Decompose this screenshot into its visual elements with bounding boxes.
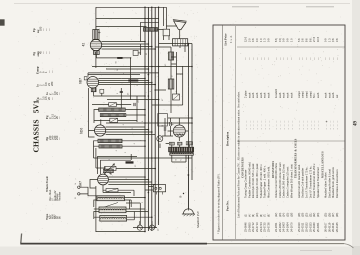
svg-text:compl.: compl. [302, 90, 305, 98]
svg-text:—: — [336, 57, 339, 61]
svg-text:—: — [279, 57, 282, 61]
parts column rule desc [237, 140, 345, 142]
svg-text:B: B [180, 196, 183, 198]
svg-text:25-0311: 25-0311 [301, 222, 305, 232]
svg-text:12 6: 12 6 [244, 36, 248, 42]
svg-text:set: set [336, 94, 339, 98]
svg-text:42: 42 [81, 43, 85, 47]
svg-text:(21): (21) [309, 212, 312, 217]
svg-text:each: each [260, 92, 263, 98]
svg-text:—: — [309, 57, 312, 61]
wire cathode 6B7 [94, 92, 116, 96]
svg-text:23-0655: 23-0655 [247, 222, 251, 232]
svg-text:4 6: 4 6 [251, 38, 255, 42]
svg-text:—: — [290, 57, 293, 61]
svg-text:... ... ...: ... ... ... [332, 120, 335, 130]
svg-text:... ... ...: ... ... ... [256, 120, 259, 130]
transformer secondary loops [170, 153, 194, 156]
earth terminal E [78, 193, 80, 195]
svg-text:Volume Control 500,000 ohms: Volume Control 500,000 ohms [274, 162, 278, 198]
resistor R HT3 [173, 94, 180, 100]
IF transformer T2 [99, 108, 126, 111]
svg-text:27 6: 27 6 [312, 36, 316, 42]
wires transformer [160, 144, 189, 163]
svg-text:4 0: 4 0 [255, 38, 259, 42]
svg-text:* Figures in circles refer to: * Figures in circles refer to wiring dia… [218, 173, 221, 234]
svg-text:—: — [51, 97, 54, 100]
svg-text:2 plate: 2 plate [245, 90, 248, 98]
svg-text:Description: Description [226, 131, 230, 146]
shield box inner [101, 160, 132, 174]
svg-text:... ... ...: ... ... ... [306, 120, 309, 130]
svg-text:each: each [287, 92, 290, 98]
resistor R HT1 [169, 52, 174, 60]
svg-text:compl.: compl. [309, 90, 312, 98]
wire left rail [95, 7, 97, 232]
svg-text:each: each [325, 92, 328, 98]
svg-text:2nd I.F. Transformer 175 kc.: 2nd I.F. Transformer 175 kc. [308, 165, 312, 198]
svg-text:Padder Condenser .00045 mfd.: Padder Condenser .00045 mfd. [247, 162, 251, 198]
oscillator grid resistor [106, 189, 118, 192]
wire top link [96, 18, 159, 20]
svg-text:(12): (12) [275, 212, 278, 217]
svg-text:... ... ...: ... ... ... [275, 120, 278, 130]
svg-text:(19): (19) [302, 212, 305, 217]
svg-text:(16): (16) [290, 212, 293, 217]
svg-text:—: — [48, 51, 51, 54]
svg-text:23-0713: 23-0713 [255, 222, 259, 232]
wires IFT2 [94, 110, 192, 124]
svg-text:—: — [317, 57, 320, 61]
svg-text:—: — [287, 57, 290, 61]
svg-text:(22): (22) [313, 212, 316, 217]
wires L2 [94, 209, 149, 219]
svg-text:... ... ...: ... ... ... [260, 120, 263, 130]
svg-text:26-0119: 26-0119 [327, 222, 331, 232]
wires rectifier [168, 118, 193, 141]
svg-text:each: each [279, 92, 282, 98]
svg-text:25-0340: 25-0340 [312, 222, 316, 232]
svg-text:24-1051: 24-1051 [274, 222, 278, 232]
svg-text:each: each [267, 92, 270, 98]
svg-text:... ... ...: ... ... ... [245, 120, 248, 130]
power transformer T-PWR [169, 147, 194, 152]
svg-text:26-0145: 26-0145 [335, 222, 339, 232]
cathode bar resistor [117, 57, 122, 59]
svg-text:23-0712: 23-0712 [251, 222, 255, 232]
wire top 6B7 [88, 73, 159, 77]
svg-text:26-0107: 26-0107 [324, 222, 328, 232]
svg-text:each: each [290, 92, 293, 98]
junction dots [154, 89, 156, 91]
scan watermark dashes [232, 6, 334, 8]
valve V3 6D6 [95, 125, 106, 136]
wire to ground [187, 210, 189, 212]
dial lamp [157, 136, 163, 142]
resistor R HT2 [168, 79, 174, 89]
svg-text:5 6: 5 6 [297, 38, 301, 42]
svg-text:Dial Lamp Holder & Lead: Dial Lamp Holder & Lead [327, 168, 331, 198]
svg-text:0 9: 0 9 [286, 38, 290, 42]
wire mid rail [121, 22, 158, 160]
svg-text:compl.: compl. [298, 90, 301, 98]
svg-text:... ... ...: ... ... ... [328, 120, 331, 130]
svg-text:... ... ...: ... ... ... [336, 120, 339, 130]
svg-text:10 6: 10 6 [316, 36, 320, 42]
transformer tap boxes [169, 142, 174, 145]
svg-text:0 9: 0 9 [324, 38, 328, 42]
wires 6B7 electrodes [98, 78, 155, 84]
wires L3 [94, 217, 152, 220]
svg-text:—: — [260, 57, 263, 61]
svg-text:(10): (10) [256, 212, 259, 217]
svg-text:5 6: 5 6 [301, 38, 305, 42]
svg-text:—: — [306, 57, 309, 61]
wires IFT1 [94, 141, 146, 158]
svg-text:... ... ...: ... ... ... [267, 120, 270, 130]
capacitor mid [120, 91, 123, 92]
svg-text:Eg: Eg [32, 52, 36, 56]
svg-text:(7): (7) [264, 214, 267, 217]
svg-text:... ... ...: ... ... ... [264, 120, 267, 130]
wires 42 electrodes [102, 42, 156, 50]
svg-text:1 0: 1 0 [259, 38, 263, 42]
svg-text:Aerial Coil with reaction wind: Aerial Coil with reaction wind. [297, 164, 301, 198]
svg-text:Dial Glass & Escutcheon: Dial Glass & Escutcheon [335, 169, 339, 198]
svg-text:—: — [256, 57, 259, 61]
oscillator coil L3 [100, 216, 127, 222]
wires OPT-speaker [158, 26, 178, 40]
svg-text:49: 49 [354, 121, 359, 127]
svg-text:Tubular Paper .05 mfd. 400 v.: Tubular Paper .05 mfd. 400 v. [259, 164, 263, 198]
wire bus B+ [144, 7, 146, 231]
valve V4 6A7 [98, 174, 109, 185]
svg-text:each: each [256, 92, 259, 98]
wires 6A7 electrodes [108, 177, 155, 185]
svg-text:—: — [267, 57, 270, 61]
wire AVC line [94, 157, 193, 159]
svg-text:—: — [51, 70, 54, 73]
wires audio [92, 96, 159, 105]
svg-text:23-0725: 23-0725 [263, 222, 267, 232]
svg-text:(27): (27) [332, 212, 335, 217]
svg-text:—: — [248, 57, 251, 61]
svg-text:0 9: 0 9 [266, 38, 270, 42]
svg-text:compl.: compl. [306, 90, 309, 98]
volume control potentiometer [105, 167, 117, 171]
svg-text:23-0646: 23-0646 [244, 222, 248, 232]
svg-text:A: A [74, 183, 77, 185]
pilot assembly box [158, 114, 168, 127]
svg-text:... ... ...: ... ... ... [283, 120, 286, 130]
wire coil risers [129, 200, 134, 220]
svg-text:1 3: 1 3 [327, 38, 331, 42]
svg-text:... ... ...: ... ... ... [302, 120, 305, 130]
svg-text:... ... ...: ... ... ... [252, 120, 255, 130]
svg-text:Moulded Valve Socket: Moulded Valve Socket [324, 172, 328, 198]
filament loops 80 [177, 134, 183, 136]
svg-text:23-0724: 23-0724 [259, 222, 263, 232]
wires L1 [94, 198, 145, 208]
svg-text:—: — [283, 57, 286, 61]
wire speaker risers [163, 7, 166, 26]
svg-text:& switch: & switch [275, 88, 278, 98]
svg-text:—: — [298, 57, 301, 61]
parts column rule price [237, 46, 345, 48]
wires 6D6 electrodes [106, 127, 156, 135]
svg-text:(26): (26) [328, 212, 331, 217]
svg-text:Tuning Gang Condenser: Tuning Gang Condenser [244, 170, 248, 198]
svg-text:each: each [252, 92, 255, 98]
svg-text:—: — [245, 57, 248, 61]
wire top rail [96, 6, 166, 8]
wire HT verticals [171, 44, 185, 114]
svg-text:... ... ...: ... ... ... [248, 120, 251, 130]
wire bus heater 1 [154, 7, 156, 228]
valve V5 80 [173, 125, 185, 137]
svg-text:Speaker Input Transformer: Speaker Input Transformer [316, 167, 320, 198]
wire bus right 2 [191, 44, 193, 181]
svg-text:1st I.F. Transformer 175 kc.: 1st I.F. Transformer 175 kc. [305, 166, 309, 198]
output transformer T-OP [144, 28, 158, 32]
svg-text:—: — [275, 57, 278, 61]
bias capacitor box [133, 50, 138, 55]
svg-text:1 0: 1 0 [289, 38, 293, 42]
svg-text:Ep: Ep [32, 28, 36, 32]
svg-text:(1): (1) [245, 214, 248, 217]
wire bus AVC [151, 7, 153, 231]
svg-text:each: each [328, 92, 331, 98]
svg-text:... ... ...: ... ... ... [290, 120, 293, 130]
svg-text:£ s. d.: £ s. d. [230, 35, 233, 43]
wires electrolytics [162, 118, 173, 136]
svg-text:50 c.: 50 c. [313, 92, 316, 98]
wire 6D6 top [89, 88, 101, 137]
svg-text:Carbon 250,000 ohms 1/2 watt: Carbon 250,000 ohms 1/2 watt [278, 162, 282, 198]
svg-text:—: — [313, 57, 316, 61]
grid cap 6B7 [84, 77, 87, 80]
svg-text:each: each [317, 92, 320, 98]
aerial coil L1 [97, 196, 125, 201]
svg-text:6D6: 6D6 [79, 128, 83, 134]
resistor under IFT2 [110, 118, 118, 122]
svg-text:each: each [283, 92, 286, 98]
wire gang links [126, 203, 152, 225]
svg-text:Power Transformer 200-250 v.: Power Transformer 200-250 v. [312, 163, 316, 198]
svg-text:each: each [248, 92, 251, 98]
svg-text:(4): (4) [248, 214, 251, 217]
svg-text:—: — [332, 57, 335, 61]
svg-text:—: — [325, 57, 328, 61]
svg-text:—: — [252, 57, 255, 61]
svg-text:24-1070: 24-1070 [289, 222, 293, 232]
valve V2 6B7 [87, 77, 99, 89]
RF coil L2 [99, 207, 126, 213]
svg-text:Electrolytic 8 mfd. 450 v. pea: Electrolytic 8 mfd. 450 v. peak [255, 163, 259, 198]
speaker horn [173, 20, 187, 30]
wire HT top [152, 44, 192, 106]
wire bus right 1 [187, 44, 189, 209]
shield box outer [98, 157, 138, 175]
svg-text:24-1064: 24-1064 [286, 222, 290, 232]
svg-text:... ... ...: ... ... ... [298, 120, 301, 130]
svg-text:(18): (18) [298, 212, 301, 217]
wires aerial [80, 187, 97, 196]
electrolytic capacitor C8a [164, 127, 166, 131]
wire bus heater 2 [158, 7, 160, 225]
svg-text:(23): (23) [317, 212, 320, 217]
svg-text:each: each [332, 92, 335, 98]
corner mark [0, 19, 5, 25]
svg-text:2 0: 2 0 [247, 38, 251, 42]
svg-text:(14): (14) [283, 212, 286, 217]
svg-text:Tubular Paper .1 mfd. 400 v.: Tubular Paper .1 mfd. 400 v. [263, 165, 267, 198]
grid resistor box [93, 30, 99, 40]
svg-text:25-0322: 25-0322 [305, 222, 309, 232]
aux box 6B7 [100, 89, 104, 93]
speaker magnet box [173, 39, 188, 46]
svg-text:Mica Condenser .0001 mfd.: Mica Condenser .0001 mfd. [266, 166, 270, 198]
plate bar resistor 6B7 [128, 80, 138, 82]
svg-text:... ... ...: ... ... ... [317, 120, 320, 130]
svg-text:—: — [59, 92, 62, 95]
wires switch [145, 187, 153, 191]
svg-text:Carbon 50,000 ohms 1/2 watt: Carbon 50,000 ohms 1/2 watt [282, 164, 286, 198]
svg-text:3 6: 3 6 [335, 38, 339, 42]
svg-text:a: a [123, 73, 125, 74]
parts header rule [235, 26, 237, 239]
svg-text:Electrolytic 8 mfd. 525 v. pea: Electrolytic 8 mfd. 525 v. peak [251, 163, 255, 198]
svg-text:25-0323: 25-0323 [308, 222, 312, 232]
svg-text:... ... ...: ... ... ... [309, 120, 312, 130]
svg-text:List of Replacement Parts and: List of Replacement Parts and Prices for… [238, 91, 241, 218]
svg-text:—: — [264, 57, 267, 61]
svg-text:(28): (28) [336, 212, 339, 217]
detector bar resistor [126, 161, 134, 163]
wire osc grid [90, 180, 98, 189]
cathode box 6B7 [91, 88, 96, 92]
parts list box [213, 25, 345, 240]
svg-text:23-0726: 23-0726 [266, 222, 270, 232]
wire bus screen [147, 7, 149, 231]
wire right links [92, 67, 192, 91]
svg-text:280: 280 [50, 81, 54, 86]
svg-text:each: each [264, 92, 267, 98]
coupling capacitor [134, 103, 135, 106]
svg-text:—: — [59, 137, 62, 140]
svg-text:26-0131: 26-0131 [331, 222, 335, 232]
svg-text:—: — [328, 57, 331, 61]
svg-text:—: — [48, 28, 51, 31]
svg-text:(20): (20) [306, 212, 309, 217]
wire speaker to HT [180, 44, 188, 48]
speaker link box [163, 29, 170, 36]
svg-text:(15): (15) [287, 212, 290, 217]
aerial terminal A [78, 186, 80, 188]
wire 6A7 cathode [103, 185, 131, 193]
svg-text:(25): (25) [325, 212, 328, 217]
top cap mark [98, 31, 101, 34]
svg-text:0 9: 0 9 [282, 38, 286, 42]
svg-text:Rectifier: Rectifier [59, 192, 62, 201]
wires volume [96, 168, 155, 174]
electrolytic capacitor C8b [170, 122, 172, 126]
pot wiper arrow [104, 164, 115, 174]
svg-text:—: — [302, 57, 305, 61]
resistor R audio [109, 103, 117, 107]
svg-text:(13): (13) [279, 212, 282, 217]
tuning arrow L2 [103, 203, 118, 208]
osc coil above 6A7 [103, 169, 113, 173]
svg-text:List Price: List Price [224, 33, 228, 46]
svg-text:25-0351: 25-0351 [316, 222, 320, 232]
svg-text:8 6: 8 6 [308, 38, 312, 42]
svg-text:Mullard T.P.: Mullard T.P. [196, 211, 200, 229]
svg-text:Carbon 1 megohm 1/2 watt: Carbon 1 megohm 1/2 watt [286, 166, 290, 198]
wire cathode 42 [96, 55, 130, 58]
valve V1 42 [90, 39, 101, 50]
svg-text:... ... ...: ... ... ... [279, 120, 282, 130]
svg-text:Wire Wound 300 ohms 1 watt: Wire Wound 300 ohms 1 watt [289, 164, 293, 198]
page fold line [20, 234, 23, 244]
svg-text:24-1063: 24-1063 [282, 222, 286, 232]
svg-text:25-0310: 25-0310 [297, 222, 301, 232]
svg-text:... ... ...: ... ... ... [287, 120, 290, 130]
svg-text:24-1062: 24-1062 [278, 222, 282, 232]
IF transformer T1 [98, 139, 122, 142]
mains switch S1 [153, 185, 165, 192]
tuning gang C-tune [133, 227, 157, 229]
parts note rule [222, 26, 224, 240]
wire plate 42 [96, 27, 147, 40]
svg-text:... ... ...: ... ... ... [313, 120, 316, 130]
svg-text:Oscillator Coil with padder: Oscillator Coil with padder [301, 168, 305, 198]
svg-text:CHASSIS 5V1: CHASSIS 5V1 [32, 100, 41, 153]
ground symbol [187, 175, 189, 211]
svg-text:6B7: 6B7 [79, 78, 83, 84]
wire bottom rail [96, 231, 145, 233]
svg-text:0 6: 0 6 [331, 38, 335, 42]
svg-text:Part No.: Part No. [226, 200, 230, 211]
svg-text:(6): (6) [260, 214, 263, 217]
svg-text:—: — [59, 116, 62, 119]
svg-text:Moulded Knob, grub screw: Moulded Knob, grub screw [331, 167, 335, 198]
svg-text:8 6: 8 6 [305, 38, 309, 42]
cathode box 42 [94, 51, 100, 55]
svg-text:1 3: 1 3 [263, 38, 267, 42]
svg-text:(8): (8) [267, 214, 270, 217]
page edge line [14, 3, 350, 5]
